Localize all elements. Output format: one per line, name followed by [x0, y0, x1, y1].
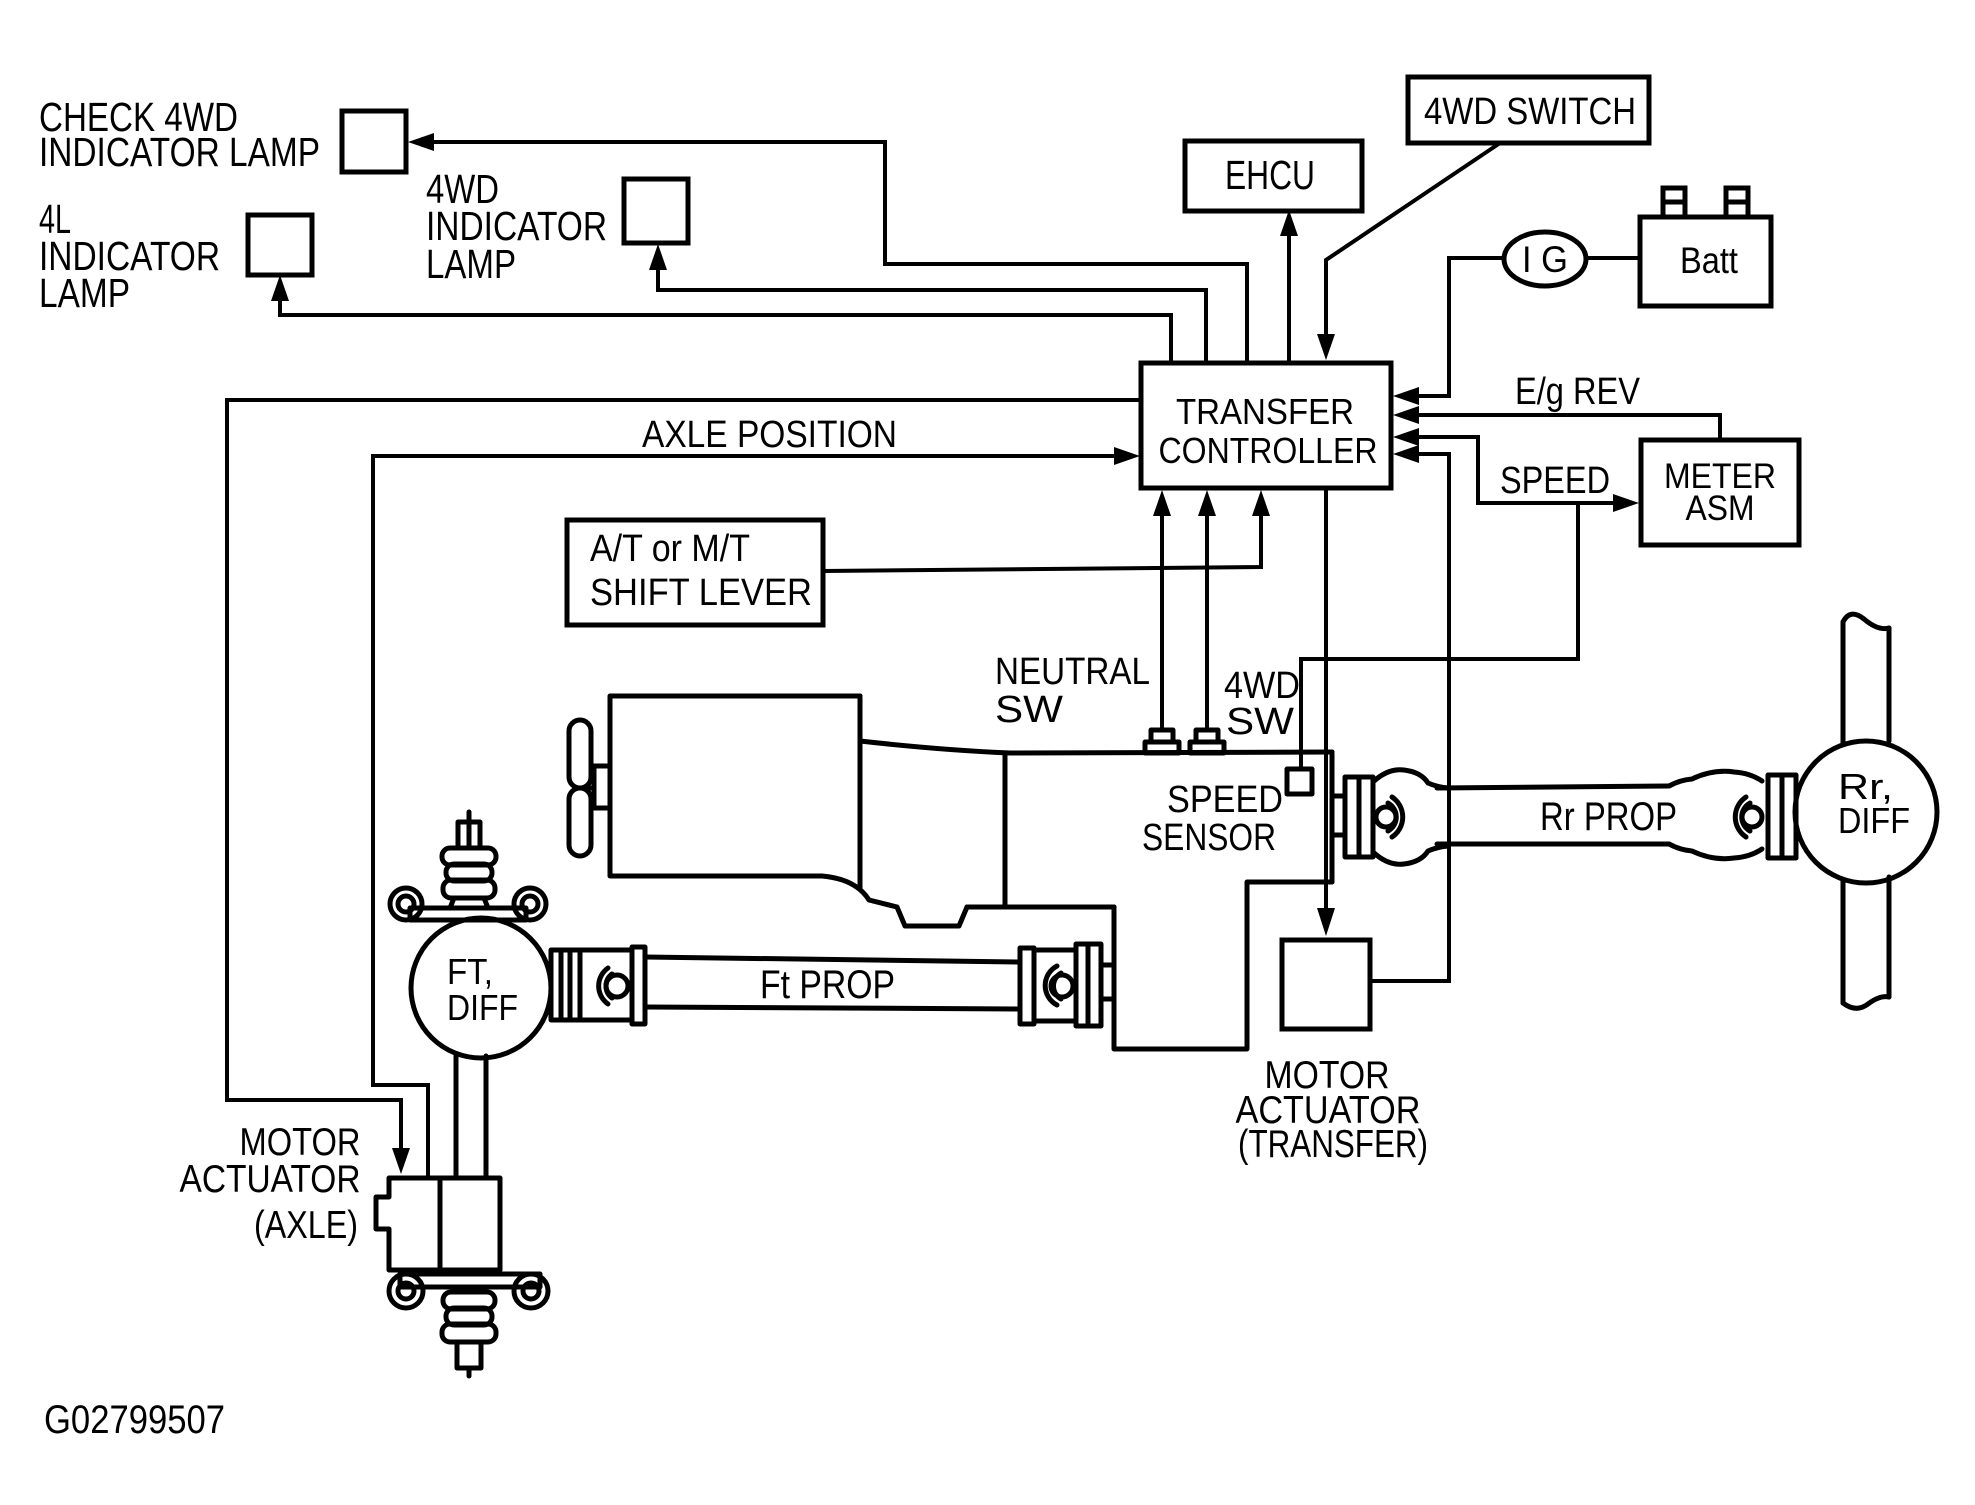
svg-text:SPEED: SPEED	[1167, 779, 1283, 821]
svg-text:(TRANSFER): (TRANSFER)	[1238, 1123, 1428, 1166]
axle actuator lower link bar	[389, 1270, 548, 1308]
svg-text:Batt: Batt	[1680, 240, 1739, 281]
svg-text:INDICATOR LAMP: INDICATOR LAMP	[39, 129, 320, 175]
label FT, DIFF	[447, 951, 518, 1028]
svg-text:DIFF: DIFF	[447, 987, 518, 1028]
arrow E/g REV into controller	[1393, 406, 1419, 424]
arrow axle position into controller	[1114, 447, 1140, 465]
Rr PROP right flange	[1768, 775, 1796, 858]
svg-text:SHIFT LEVER: SHIFT LEVER	[590, 572, 812, 614]
box 4WD indicator lamp	[624, 179, 688, 243]
box A/T or M/T SHIFT LEVER	[567, 520, 823, 625]
box check 4WD indicator lamp	[342, 111, 406, 172]
svg-text:A/T or M/T: A/T or M/T	[590, 528, 750, 570]
svg-text:EHCU: EHCU	[1225, 152, 1315, 198]
FT DIFF housing	[411, 918, 551, 1058]
arrow speed into controller	[1393, 428, 1419, 446]
arrow into 4WD lamp	[649, 244, 667, 270]
label NEUTRAL SW	[995, 651, 1150, 731]
wire neutral SW to controller	[1160, 514, 1164, 731]
svg-text:FT,: FT,	[447, 951, 493, 992]
box EHCU U1	[1185, 141, 1362, 211]
wire E/g REV from meter asm to controller	[1419, 415, 1720, 440]
svg-text:LAMP: LAMP	[426, 241, 516, 287]
wire shift lever to controller	[823, 514, 1261, 571]
svg-text:ACTUATOR: ACTUATOR	[180, 1158, 361, 1201]
box 4L indicator lamp	[248, 215, 312, 275]
motor actuator (axle) body	[376, 1178, 500, 1270]
svg-text:CONTROLLER: CONTROLLER	[1159, 430, 1378, 471]
wire speed sensor branch	[1301, 503, 1578, 769]
wire controller to check 4WD lamp	[430, 142, 1247, 363]
front diff upper link bar	[390, 888, 546, 920]
box METER ASM	[1641, 440, 1799, 545]
arrow 4WD SW into controller	[1198, 490, 1216, 516]
node IG ignition	[1504, 232, 1586, 286]
wire controller to 4L indicator lamp	[280, 299, 1171, 363]
svg-text:DIFF: DIFF	[1838, 800, 1910, 841]
Ft PROP left U-joint yoke	[580, 947, 645, 1024]
svg-text:SW: SW	[1226, 701, 1294, 743]
Ft PROP left flange at front diff	[551, 950, 580, 1020]
label Rr, DIFF	[1838, 766, 1910, 841]
speed sensor pickup square	[1287, 769, 1312, 794]
svg-text:4WD SWITCH: 4WD SWITCH	[1424, 91, 1636, 133]
label MOTOR ACTUATOR (AXLE)	[180, 1121, 361, 1247]
label MOTOR ACTUATOR (TRANSFER)	[1236, 1054, 1429, 1166]
svg-text:Rr PROP: Rr PROP	[1540, 795, 1677, 839]
engine fan	[569, 720, 610, 856]
svg-text:G02799507: G02799507	[44, 1398, 225, 1442]
Rr PROP left flange	[1332, 777, 1373, 857]
svg-text:I G: I G	[1522, 239, 1568, 280]
Ft PROP right flange at transmission	[1076, 944, 1114, 1026]
arrow into motor actuator transfer	[1317, 908, 1335, 936]
wire IG to Batt	[1586, 256, 1640, 260]
label CHECK 4WD INDICATOR LAMP	[39, 94, 320, 175]
wire controller to EHCU	[1287, 234, 1291, 363]
4WD SW connector bolt	[1190, 730, 1224, 753]
front axle shaft down from diff	[456, 1056, 486, 1178]
svg-text:ASM: ASM	[1686, 489, 1755, 528]
front diff upper boot bellows	[442, 848, 496, 908]
transmission and transfer case outline	[860, 741, 1332, 1049]
svg-text:SENSOR: SENSOR	[1142, 817, 1276, 859]
front diff upper stud pin	[458, 812, 480, 848]
Rr PROP left U-joint yoke	[1373, 770, 1448, 865]
Rr PROP right U-joint yoke	[1669, 771, 1762, 858]
Ft PROP shaft	[645, 957, 1020, 1009]
svg-text:TRANSFER: TRANSFER	[1176, 391, 1354, 432]
arrow shift lever into controller bottom	[1252, 490, 1270, 516]
arrow into motor actuator axle	[392, 1148, 410, 1174]
svg-text:SPEED: SPEED	[1500, 460, 1610, 502]
arrow into controller top from 4WD switch	[1317, 334, 1335, 360]
arrow into check lamp	[408, 133, 434, 151]
axle actuator lower boot bellows	[442, 1292, 496, 1376]
wire controller to 4WD indicator lamp	[658, 268, 1206, 363]
wire actuator transfer feedback to controller	[1370, 454, 1449, 981]
rear axle lower	[1843, 877, 1889, 1008]
box TRANSFER CONTROLLER	[1141, 363, 1391, 488]
svg-text:(AXLE): (AXLE)	[254, 1204, 358, 1247]
arrow into 4L lamp	[271, 275, 289, 301]
svg-text:SW: SW	[995, 689, 1063, 731]
svg-text:LAMP: LAMP	[39, 270, 130, 316]
Rr DIFF housing	[1795, 741, 1937, 883]
engine block	[610, 696, 1114, 926]
label 4WD SW	[1224, 665, 1300, 743]
arrow feedback into controller	[1393, 445, 1419, 463]
arrow IG into controller right	[1393, 387, 1419, 405]
label 4L INDICATOR LAMP	[39, 196, 220, 316]
label 4WD INDICATOR LAMP	[426, 166, 607, 287]
arrow neutral SW into controller	[1153, 490, 1171, 516]
arrow speed into meter asm	[1613, 494, 1639, 512]
svg-text:Ft PROP: Ft PROP	[760, 963, 895, 1007]
wire IG to controller	[1419, 258, 1505, 396]
Rr PROP shaft	[1437, 786, 1669, 844]
rear axle upper	[1843, 614, 1889, 744]
svg-text:E/g REV: E/g REV	[1515, 371, 1641, 413]
svg-text:AXLE POSITION: AXLE POSITION	[642, 414, 897, 456]
wire controller to motor actuator transfer	[1324, 488, 1328, 910]
battery Batt	[1640, 188, 1771, 306]
wire 4WD switch to controller	[1326, 143, 1500, 336]
wire SPEED controller to meter asm	[1419, 437, 1615, 503]
arrow into EHCU	[1280, 210, 1298, 236]
svg-text:NEUTRAL: NEUTRAL	[995, 651, 1150, 693]
neutral SW connector bolt	[1145, 730, 1179, 753]
label SPEED SENSOR	[1142, 779, 1283, 859]
wire controller to motor actuator axle	[227, 400, 1141, 1150]
box motor actuator (transfer)	[1282, 940, 1370, 1029]
Ft PROP right U-joint yoke	[1020, 948, 1076, 1024]
box 4WD SWITCH	[1408, 77, 1649, 143]
wire axle position feedback to controller	[373, 456, 1114, 1178]
wire 4WD SW to controller	[1205, 514, 1209, 731]
